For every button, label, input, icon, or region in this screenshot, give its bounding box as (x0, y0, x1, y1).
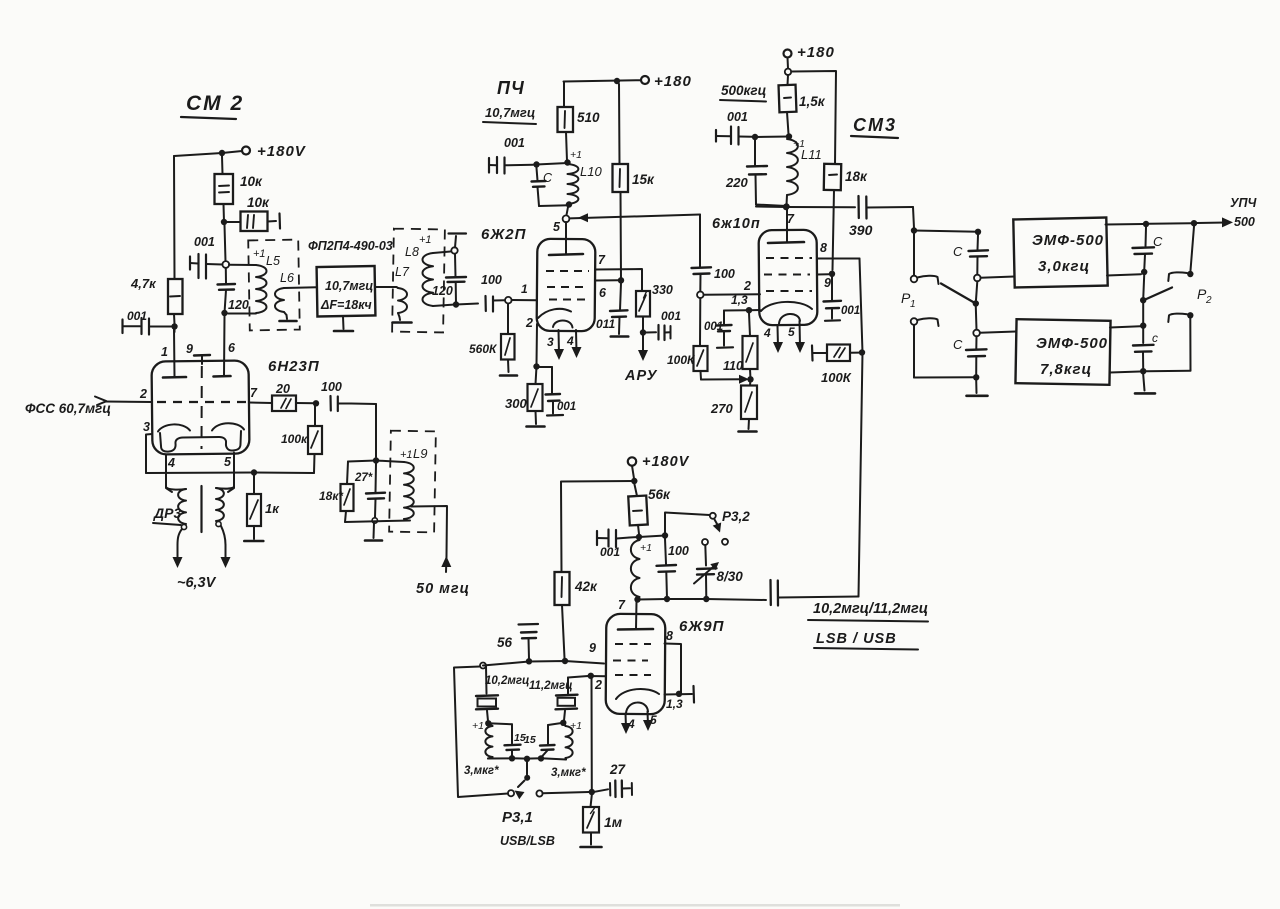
dashed box L5 (248, 240, 300, 331)
resistor 18k screen (CM3) (824, 164, 868, 270)
capacitor C right lower (1133, 331, 1158, 368)
svg-text:270: 270 (710, 401, 733, 416)
pin 1,3 wire (6Zh9P) (665, 686, 695, 711)
svg-text:11,2мгц: 11,2мгц (529, 680, 573, 692)
power terminal +180 (PCh) (641, 73, 692, 90)
svg-text:+180V: +180V (257, 143, 307, 160)
wire screen node to grid node (CM2) (225, 225, 226, 261)
resistor 1.5k plate (CM3) (779, 75, 826, 134)
osc bottom bus (638, 599, 767, 600)
capacitor 15 tank1 (488, 723, 520, 757)
svg-text:ДР3: ДР3 (153, 505, 181, 521)
resistor 330 AGC (636, 283, 673, 331)
grid bus wire (osc) (483, 661, 604, 666)
junction screen node (CM2) (221, 219, 227, 225)
junction P2 arm node (1140, 297, 1146, 303)
svg-text:110: 110 (723, 359, 743, 373)
label 6.3V (177, 575, 217, 591)
trimmer capacitor 8/30 (694, 562, 743, 599)
svg-text:220: 220 (725, 175, 748, 190)
inductor L8 (405, 234, 455, 306)
svg-text:10,7мгц: 10,7мгц (325, 279, 373, 293)
svg-text:42к: 42к (574, 579, 598, 594)
label USB/LSB (500, 834, 555, 848)
svg-text:+1: +1 (472, 720, 484, 732)
svg-text:c: c (1152, 331, 1158, 345)
svg-text:27: 27 (609, 762, 627, 777)
switch P2 label (1197, 286, 1212, 306)
svg-text:500: 500 (1234, 215, 1255, 229)
wire node to 18k branch (348, 461, 376, 462)
label 10.2MHz (485, 675, 529, 687)
label 50 MHz (416, 581, 470, 597)
svg-text:510: 510 (577, 110, 600, 125)
cathode wire 1,3 (6zh10p) (724, 293, 748, 311)
ground 1M (581, 846, 602, 849)
power terminal +180 (CM3) (784, 44, 835, 61)
filter column left top junction (975, 229, 981, 235)
grid rows dashed (6Zh2P) (546, 271, 589, 300)
svg-text:P3,1: P3,1 (502, 809, 533, 826)
svg-text:3,мкг*: 3,мкг* (464, 765, 499, 777)
junction trimmer bottom (703, 596, 709, 602)
resistor 20 grid2 (272, 382, 316, 411)
wire P1 node to filter column (914, 231, 978, 232)
wire grid leak to divider (701, 375, 749, 384)
pin 5 lead (6N23P) (224, 453, 234, 493)
svg-text:ПЧ: ПЧ (497, 78, 525, 98)
resistor 100K horizontal (mixer inj) (812, 345, 859, 386)
wire P1 lower to filter bottom bus (914, 376, 976, 378)
heater arcs (6Zh9P) (616, 689, 659, 714)
ground filter box (334, 317, 353, 332)
bottom bus tank (488, 758, 566, 759)
svg-text:2: 2 (525, 316, 533, 330)
ground L9 bus (365, 523, 382, 541)
junction L10 top (564, 149, 582, 166)
resistor 270 divider (710, 379, 757, 429)
svg-text:1м: 1м (604, 814, 623, 830)
resistor 56k plate (osc) (628, 484, 671, 535)
junction osc out node (589, 789, 595, 795)
capacitor 001 coupling (CM2 top) (190, 235, 222, 279)
tube label 6zh10p (712, 216, 761, 232)
svg-text:2: 2 (139, 387, 147, 401)
tube 6N23P envelope (152, 360, 250, 454)
svg-text:C: C (953, 337, 963, 352)
tank bottom wire (PCh) (539, 204, 569, 207)
AGC arrow and label (624, 336, 658, 385)
terminal top of L8 (449, 234, 467, 254)
svg-text:L11: L11 (801, 147, 822, 162)
ground filter left column (967, 380, 988, 396)
svg-text:6: 6 (228, 341, 236, 355)
svg-text:6: 6 (599, 286, 607, 300)
svg-text:ФСС 60,7мгц: ФСС 60,7мгц (25, 401, 111, 416)
section title CM2 (181, 92, 244, 119)
capacitor 100 (osc) (657, 539, 689, 599)
capacitor C right upper (1133, 227, 1164, 269)
wire right column to cap (1142, 303, 1144, 343)
svg-text:9: 9 (824, 276, 831, 290)
wire cap to coil node (630, 536, 640, 539)
pin 6 wire (6Zh2P) (595, 280, 618, 300)
svg-text:1к: 1к (265, 501, 280, 516)
capacitor 001 AGC (646, 309, 681, 340)
junction cathode bus (251, 469, 257, 475)
switch P3-1 pivot (524, 762, 530, 781)
grid rows dashed (6zh10p) (764, 258, 812, 291)
svg-text:+180: +180 (654, 73, 692, 90)
wire filter to L7 (375, 286, 396, 288)
svg-text:УПЧ: УПЧ (1230, 196, 1257, 210)
heater arcs (6zh10p) (761, 302, 812, 324)
scan artifact bottom edge (370, 904, 900, 907)
svg-text:9: 9 (186, 342, 193, 356)
svg-text:1,5к: 1,5к (799, 94, 826, 109)
svg-text:1: 1 (521, 282, 528, 296)
capacitor C tank (PCh) (532, 168, 554, 206)
svg-text:СМ3: СМ3 (853, 115, 897, 135)
power terminal +180V (osc) (628, 454, 690, 470)
capacitor C left lower (953, 336, 987, 375)
ground 1k (244, 540, 263, 543)
switch P3-2 fixed contact (710, 513, 716, 519)
svg-text:1: 1 (910, 299, 916, 310)
svg-text:001: 001 (661, 309, 681, 323)
junction B+ (CM2) (219, 150, 225, 156)
dashed box L8 (392, 229, 445, 333)
junction EMF2 out (1140, 322, 1146, 328)
section title CM3 (851, 115, 898, 138)
heater arcs (6Zh2P) (538, 309, 573, 328)
wire EMF2 out top (1110, 326, 1140, 327)
cathode structure (6N23P) (158, 423, 244, 451)
resistor 15k screen (PCh) (613, 84, 656, 280)
resistor 10k plate (CM2) vertical (215, 156, 264, 222)
resistor 510 plate (PCh) (558, 82, 601, 162)
svg-text:6Ж2П: 6Ж2П (481, 226, 527, 243)
resistor 100k (6N23P anode load) (281, 403, 322, 473)
junction pin8-1,3 (676, 691, 682, 697)
svg-text:10,2мгц: 10,2мгц (485, 675, 529, 687)
heater lead right arrow (221, 526, 231, 568)
junction B+ (PCh) (614, 78, 620, 84)
switch P1 label (901, 290, 916, 310)
filter FP2P4-480-03 box (308, 239, 393, 317)
wire input node to L11 (755, 136, 789, 139)
node circle EMF2 input (973, 330, 1016, 337)
switch P3-2 moving contact (722, 539, 728, 545)
capacitor 001 cathode bypass (539, 367, 576, 416)
switch P3-1 arm (515, 781, 525, 800)
wire left column middle (976, 281, 977, 300)
label pin 9 bus (589, 641, 596, 655)
wire to P1 node (913, 207, 914, 228)
capacitor 001 input (CM3) (716, 110, 752, 145)
svg-text:5: 5 (788, 325, 795, 339)
resistor 42k grid (osc) (555, 572, 599, 658)
crystal 10.2MHz (476, 666, 498, 721)
capacitor 100 grid (PCh) (481, 273, 505, 312)
feedback loop wire (P3-1 left) (454, 667, 508, 798)
switch P2 arm (1146, 288, 1172, 300)
switch P1 arm (941, 284, 974, 303)
inductor L11 (787, 139, 798, 205)
svg-text:10к: 10к (240, 174, 263, 189)
svg-text:8/30: 8/30 (717, 569, 744, 584)
junction P1 arm node (973, 300, 979, 306)
svg-text:7: 7 (598, 253, 606, 267)
wire B+ to 42k branch (561, 481, 634, 572)
switch label P3-1 (502, 809, 533, 826)
inductor L6 coupling (275, 271, 317, 315)
svg-text:7,8кгц: 7,8кгц (1040, 361, 1092, 378)
ground 560k (500, 374, 517, 377)
junction plate (6zh10p) (783, 204, 789, 210)
junction xtal2 bottom (560, 720, 582, 732)
svg-text:6Н23П: 6Н23П (268, 358, 320, 375)
switch P2 upper throw (1168, 226, 1194, 281)
label DR3 (153, 505, 181, 525)
svg-text:L10: L10 (580, 164, 602, 179)
pin 8 wire (6zh10p) (817, 241, 860, 259)
svg-text:3,мкг*: 3,мкг* (551, 767, 586, 779)
label 3uH left (464, 765, 499, 777)
svg-text:9: 9 (589, 641, 596, 655)
resistor 10k screen (CM2) horizontal (224, 195, 280, 231)
svg-text:L9: L9 (413, 446, 427, 461)
EMF-500 7.8kHz filter box (1015, 319, 1110, 385)
heater pin 4 arrow (6Zh2P) (566, 330, 582, 358)
capacitor 390 coupling (849, 196, 913, 238)
junction L8 output (453, 301, 459, 307)
svg-text:7: 7 (787, 212, 795, 226)
svg-text:18к*: 18к* (319, 489, 344, 503)
svg-text:001: 001 (504, 136, 525, 150)
EMF1 output wire top (1106, 223, 1144, 226)
svg-text:011: 011 (596, 317, 615, 331)
svg-text:~6,3V: ~6,3V (177, 575, 217, 591)
label +1 (osc coil) (640, 542, 652, 554)
inductor osc coil (631, 540, 640, 597)
junction after R20 (313, 400, 319, 406)
resistor 100k mixer grid leak (667, 298, 708, 379)
node circle grid bus left (480, 663, 486, 669)
anode lead (6zh10p) (768, 209, 804, 243)
pin 8 loop (6Zh9P) (665, 629, 682, 693)
switch P1 lower throw (911, 318, 939, 377)
svg-text:+1: +1 (570, 149, 582, 161)
wire L8 to grid cap (456, 304, 478, 305)
heater pin 4 arrow (6Zh9P) (621, 714, 635, 735)
inductor L9 (376, 461, 414, 521)
capacitor 27 coupling (595, 762, 633, 797)
pin 2 label (6N23P) (139, 387, 147, 401)
svg-text:1: 1 (161, 345, 168, 359)
svg-text:56к: 56к (648, 487, 671, 502)
wire P3-2 branch (639, 513, 710, 538)
cathode lead (6Zh2P) (525, 316, 537, 364)
capacitor 100 mixer grid (692, 215, 735, 292)
capacitor coupling series (osc out) (771, 580, 859, 606)
label osc frequencies (808, 601, 928, 650)
node grid-top circle (CM2) (222, 261, 229, 268)
arrow to UPCh (1197, 217, 1233, 227)
svg-text:L8: L8 (405, 245, 419, 259)
junction tank bottom (CM2) (221, 310, 227, 316)
wire grid into 6Zh2P (512, 299, 537, 301)
wire left B+ drop (CM2) (173, 156, 176, 279)
ground filter right column (1135, 374, 1155, 393)
wire to tank cap node (537, 163, 568, 165)
pin 7 wire (6Zh2P) (595, 253, 642, 291)
EMF-500 3.0kHz filter box (1013, 218, 1107, 288)
wire B+ to 18k branch (791, 71, 836, 164)
svg-text:2: 2 (743, 279, 751, 293)
section title PCh (497, 78, 525, 98)
capacitor 120 (L8 tank) (432, 254, 466, 304)
svg-text:4: 4 (566, 334, 574, 348)
svg-text:001: 001 (600, 545, 620, 559)
node circle below terminal (785, 58, 791, 76)
svg-text:001: 001 (127, 309, 147, 323)
svg-text:L7: L7 (395, 265, 410, 279)
capacitor 220 (CM3) (725, 140, 767, 205)
capacitor 001 input (CM2) (123, 309, 172, 335)
dashed box L9 (389, 431, 436, 533)
resistor 300 cathode (505, 367, 543, 425)
label 3uH right (551, 767, 586, 779)
junction L11 top (786, 133, 822, 162)
junction plate node (CM3) (783, 203, 789, 209)
wire L9 bottom bus (345, 521, 410, 523)
svg-text:АРУ: АРУ (624, 368, 658, 384)
svg-text:1,3: 1,3 (666, 697, 683, 711)
pin 9 wire (6zh10p) (817, 274, 831, 290)
resistor 1M grid leak (osc) (583, 795, 623, 845)
wire plate to mixer grid column (570, 213, 701, 222)
capacitor 001 input (PCh) (489, 136, 533, 174)
junction filter bottom left (973, 374, 979, 380)
svg-text:ЭМФ-500: ЭМФ-500 (1036, 335, 1108, 352)
junction L10 bottom (566, 201, 572, 207)
label UPCh 500 (1230, 196, 1257, 229)
svg-text:56: 56 (497, 635, 513, 650)
svg-text:+1: +1 (253, 248, 266, 260)
svg-text:4: 4 (763, 326, 771, 340)
svg-text:100к: 100к (281, 432, 308, 446)
svg-text:ЭМФ-500: ЭМФ-500 (1032, 232, 1104, 249)
tube label 6N23P (268, 358, 320, 375)
label 10.7MHz (483, 105, 536, 124)
svg-text:5: 5 (553, 220, 561, 234)
svg-text:2: 2 (1205, 295, 1212, 306)
junction EMF2 out lower (1110, 368, 1146, 374)
junction cathode (6Zh2P) (533, 363, 539, 369)
resistor 110 divider (723, 313, 758, 379)
svg-text:300: 300 (505, 396, 527, 411)
junction B+ (osc) (631, 478, 637, 484)
grid rows dashed (6Zh9P) (613, 644, 651, 675)
svg-text:6Ж9П: 6Ж9П (679, 618, 725, 635)
node grid circle 6Zh2P (505, 297, 512, 304)
pin 1 lead and anode bar (6N23P) (161, 329, 186, 378)
svg-text:LSB / USB: LSB / USB (816, 631, 897, 647)
svg-text:3: 3 (547, 335, 554, 349)
wire B+ down (osc) (632, 466, 634, 479)
cathode bottom bus (6N23P) (146, 472, 314, 475)
capacitor 27* osc (354, 464, 385, 518)
grid dashed row (6N23P) (157, 401, 246, 403)
svg-text:001: 001 (704, 321, 723, 333)
junction cap input node (CM3) (752, 134, 758, 140)
junction osc coil top (636, 534, 642, 540)
junction 42k bottom (562, 658, 568, 664)
choke core line (200, 486, 202, 532)
svg-text:8: 8 (666, 629, 673, 643)
junction grid node (CM2) (171, 323, 177, 332)
svg-text:100: 100 (481, 273, 502, 287)
switch P3-2 arm (713, 520, 722, 533)
svg-text:+1: +1 (419, 234, 432, 246)
svg-text:+1: +1 (400, 449, 413, 461)
tube 6Zh9P envelope (606, 614, 666, 714)
ground 270 (739, 430, 757, 433)
resistor 560k grid leak (469, 304, 515, 373)
wire B+ top (CM2) (174, 151, 242, 156)
wire left column lower (975, 307, 978, 330)
wire down to L9 node (375, 404, 377, 457)
junction cap100 top (662, 532, 668, 538)
feedback vertical wire (859, 259, 863, 597)
junction EMF1 out lower (1107, 269, 1147, 276)
junction tank2 out (538, 755, 544, 761)
resistor 18k* osc (319, 462, 354, 523)
svg-text:L5: L5 (266, 254, 280, 268)
svg-text:001: 001 (841, 305, 860, 317)
capacitor 56 grid (497, 624, 538, 659)
junction screen (6zh10p) (829, 271, 835, 277)
svg-text:1,3: 1,3 (731, 293, 748, 307)
resistor 1k cathode (247, 473, 280, 540)
tube label 6Zh2P (481, 226, 527, 243)
ground L7 (393, 317, 412, 323)
wire right column middle (1142, 275, 1145, 297)
svg-text:4,7к: 4,7к (130, 276, 157, 291)
svg-text:20: 20 (275, 382, 290, 396)
junction pin2 node (588, 673, 602, 692)
svg-text:500кгц: 500кгц (721, 83, 767, 98)
svg-text:100К: 100К (821, 370, 852, 385)
svg-text:100: 100 (668, 544, 689, 558)
node small circle above ground (372, 518, 377, 523)
svg-text:10,2мгц/11,2мгц: 10,2мгц/11,2мгц (813, 601, 928, 617)
svg-text:120: 120 (432, 284, 453, 298)
junction EMF1 out (1143, 221, 1149, 227)
switch P1 upper throw (911, 234, 939, 285)
svg-text:100: 100 (714, 267, 735, 281)
wire grid into 6zh10p (704, 279, 760, 295)
junction cap56 (526, 658, 532, 664)
center shield dashed (6N23P) (201, 366, 203, 449)
junction tank1 out (509, 755, 515, 761)
tube label 6Zh9P (679, 618, 725, 635)
svg-text:120: 120 (228, 298, 249, 312)
pin 6 lead and anode bar (6N23P) (214, 316, 237, 377)
capacitor 001 cathode (6zh10p) (704, 311, 733, 348)
svg-text:10к: 10к (247, 195, 270, 210)
